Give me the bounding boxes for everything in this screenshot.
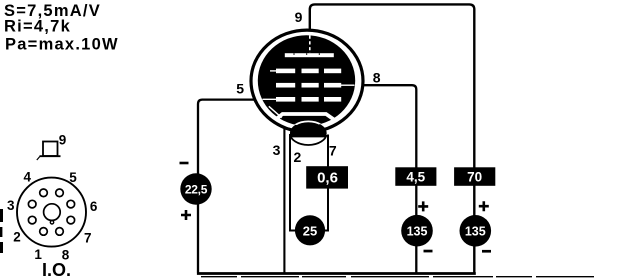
tube V1: inner black disc [258, 35, 355, 126]
svg-text:5: 5 [236, 80, 244, 96]
polarity minus above M1 [180, 162, 189, 165]
svg-text:25: 25 [303, 223, 317, 238]
meter M4 135 (anode supply) [460, 215, 492, 247]
socket: pin hole 8 [56, 228, 64, 236]
label 4,5 (cathode resistor voltage) [395, 167, 436, 186]
tube V1: grid g1 row dashes (connects left to pin 5) [263, 97, 342, 102]
svg-text:2: 2 [294, 149, 302, 165]
svg-text:7: 7 [84, 231, 92, 246]
socket: center key [44, 204, 61, 221]
meter M1 22,5 (grid bias voltage) [180, 173, 211, 204]
svg-text:22,5: 22,5 [185, 183, 208, 197]
svg-text:7: 7 [329, 142, 337, 158]
tube V1: envelope [251, 30, 363, 132]
svg-text:Ri=4,7k: Ri=4,7k [4, 18, 71, 36]
tube V1: grid g3 row dashes [270, 69, 341, 74]
socket: pin hole 7 [67, 216, 75, 224]
polarity plus below M1 [181, 210, 191, 220]
svg-text:2: 2 [13, 230, 21, 245]
socket: pin hole 2 [28, 216, 36, 224]
wire: bottom common rail [197, 272, 476, 275]
wire: grid g1 pin 5 lead from tube left, corner, down to bottom rail [198, 100, 268, 273]
svg-text:3: 3 [273, 142, 281, 158]
scan artifact line at bottom [201, 276, 595, 278]
label 70 (anode voltage) [454, 167, 495, 186]
svg-text:9: 9 [295, 9, 303, 25]
socket: pin hole 6 [67, 200, 75, 208]
svg-text:Pa=max.10W: Pa=max.10W [5, 36, 119, 54]
polarity minus below M3 [424, 250, 433, 253]
polarity plus above M3 [418, 201, 428, 211]
svg-text:3: 3 [7, 198, 15, 213]
wire: heater pin 2 lead down to meter 25 [290, 134, 296, 231]
socket: pin hole 3 [28, 200, 36, 208]
svg-text:135: 135 [465, 225, 486, 239]
socket: pin hole 4 [40, 189, 48, 197]
socket: pin hole 5 [56, 189, 64, 197]
polarity minus below M4 [482, 250, 491, 253]
wire: grid g2 pin 8 lead from tube right, corner, down to bottom rail [356, 85, 416, 272]
label 0,6 (heater voltage) [306, 166, 348, 188]
socket: top cap symbol [43, 142, 58, 157]
tube V1: grid g2 row dashes (connects right to pin 8) [276, 83, 355, 88]
socket: pin hole 1 [40, 228, 48, 236]
svg-text:0,6: 0,6 [317, 170, 338, 187]
svg-text:9: 9 [59, 132, 67, 147]
svg-text:5: 5 [69, 170, 77, 185]
tube V1: cathode [269, 106, 282, 117]
socket: base outline circle [17, 178, 86, 247]
svg-text:135: 135 [407, 225, 428, 239]
svg-text:70: 70 [467, 169, 482, 184]
meter M2 25 (current) [295, 215, 325, 245]
wire: heater pin 7 lead down through 0,6 label to meter 25 [325, 135, 329, 231]
tube V1: anode plate bar [285, 53, 334, 57]
polarity plus above M4 [479, 201, 489, 211]
wire: anode pin 9 lead up, across top, down right side to bottom rail [310, 4, 475, 272]
tube V1: pin 9 internal dashed lead to anode [309, 36, 311, 54]
svg-text:I.O.: I.O. [42, 260, 71, 280]
svg-text:8: 8 [373, 69, 381, 85]
wire: cathode pin 3 lead down to bottom rail [283, 126, 285, 274]
svg-text:4: 4 [24, 169, 32, 184]
scan artifact marks left edge [0, 209, 3, 222]
meter M3 135 (screen supply) [401, 215, 433, 247]
svg-text:4,5: 4,5 [406, 169, 425, 184]
svg-text:6: 6 [90, 199, 98, 214]
